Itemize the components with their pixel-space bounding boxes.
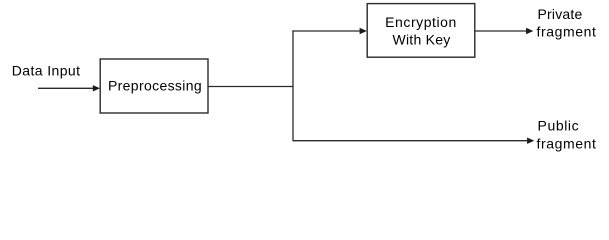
arrowhead: to Private fragment: [526, 28, 533, 34]
box: Preprocessing: [100, 59, 208, 113]
svg-text:Encryption: Encryption: [385, 14, 457, 30]
wire: Encryption to Private fragment: [475, 30, 527, 32]
svg-text:Data Input: Data Input: [12, 62, 81, 78]
arrowhead: into Preprocessing: [93, 85, 100, 91]
wire: top branch to Encryption: [292, 30, 360, 32]
arrowhead: to Public fragment: [527, 138, 534, 144]
wire: input arrow shaft: [38, 87, 94, 89]
box: Encryption With Key: [367, 4, 475, 58]
wire: bottom branch to Public fragment: [293, 140, 528, 142]
svg-text:Public: Public: [538, 118, 580, 134]
svg-text:fragment: fragment: [537, 24, 597, 40]
svg-text:Private: Private: [538, 6, 583, 22]
wire: from Preprocessing to branch junction: [208, 86, 294, 88]
svg-text:With Key: With Key: [392, 32, 450, 48]
svg-text:fragment: fragment: [537, 135, 597, 151]
svg-text:Preprocessing: Preprocessing: [108, 78, 202, 94]
wire: vertical branch line: [292, 30, 294, 141]
arrowhead: into Encryption box: [360, 28, 367, 34]
